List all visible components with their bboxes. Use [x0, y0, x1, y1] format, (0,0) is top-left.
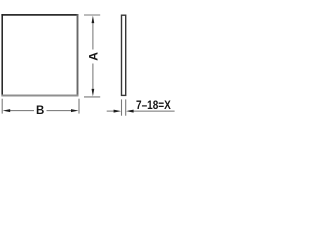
dimension B line left segment — [9, 110, 35, 112]
dimension A bottom tick — [84, 96, 100, 98]
dimension X left arrowhead — [114, 110, 122, 113]
dimension B right extension line — [78, 99, 80, 114]
dimension X left arrow line — [107, 110, 116, 112]
svg-text:7–18=X: 7–18=X — [136, 100, 171, 112]
dimension A line upper segment — [92, 23, 94, 50]
dimension X leader line — [132, 110, 175, 112]
dimension A top tick — [84, 14, 100, 16]
dimension A arrow up — [92, 16, 95, 24]
svg-text:B: B — [36, 105, 44, 117]
dimension B line right segment — [47, 110, 74, 112]
dimension A arrow down — [92, 89, 95, 97]
panel front view top edge — [1, 14, 78, 16]
dimension X right arrowhead — [126, 110, 134, 113]
dimension X left extension line — [121, 99, 123, 115]
dimension B arrow left — [3, 109, 11, 112]
svg-text:A: A — [86, 52, 100, 61]
panel front view right edge — [77, 14, 79, 96]
dimension X right extension line — [125, 99, 127, 115]
panel front view left edge — [1, 14, 3, 96]
dimension B arrow right — [71, 109, 79, 112]
panel side view — [122, 15, 126, 95]
panel front view bottom edge — [1, 94, 78, 96]
dimension B left extension line — [1, 99, 3, 114]
dimension A line lower segment — [92, 64, 94, 90]
